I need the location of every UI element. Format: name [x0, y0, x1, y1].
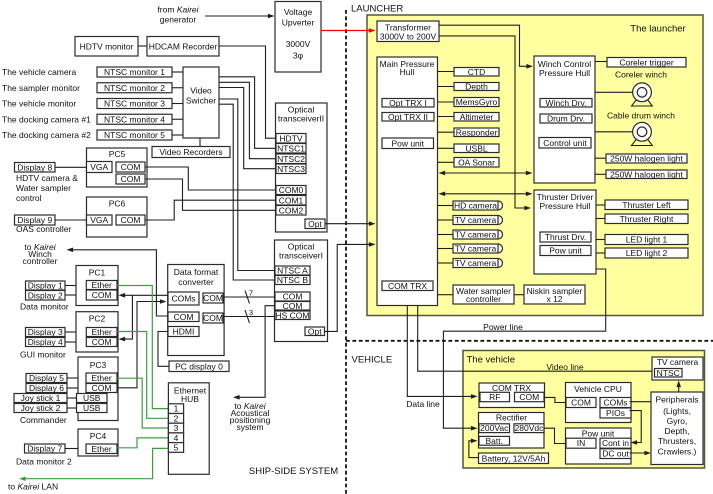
wire Water sampler controller to Niskin sampler [514, 294, 524, 296]
svg-text:COM TRX: COM TRX [388, 281, 427, 291]
svg-text:HD camera: HD camera [454, 201, 497, 211]
svg-text:(Lights,: (Lights, [663, 406, 691, 416]
port COM (PC3) [86, 383, 117, 393]
box Depth [454, 82, 499, 92]
svg-text:Water sampler: Water sampler [16, 183, 71, 193]
port NTSC1 [276, 143, 306, 153]
wire Display 3 to PC2 [65, 331, 76, 333]
svg-text:Video: Video [190, 86, 212, 96]
box TV camera 4 [453, 244, 503, 254]
wire Video Swicher to Video Recorders [199, 138, 201, 147]
wire Main hull - Thruster Driver hull (bidirectional) [442, 193, 531, 195]
svg-text:NTSC monitor 4: NTSC monitor 4 [104, 114, 165, 124]
wire Main hull to TV camera 2 [438, 219, 454, 221]
svg-text:280Vdc: 280Vdc [515, 423, 545, 433]
svg-text:COM: COM [283, 301, 303, 311]
wire PC5 COM lower to COM2 port [145, 179, 276, 210]
port Ether (PC3) [86, 373, 117, 383]
svg-text:NTSC A: NTSC A [277, 266, 308, 276]
box Main Pressure Hull [377, 57, 438, 306]
box Transformer 3000V to 200V [377, 21, 439, 42]
wire NTSC monitor 4 to Video Swicher [172, 118, 183, 120]
svg-text:TV camera: TV camera [455, 258, 497, 268]
port Batt. [479, 436, 510, 446]
wire Display 7 to PC4 [65, 448, 78, 450]
box Display 1 [26, 281, 66, 291]
box Thruster Right [605, 214, 688, 224]
icon Cable drum winch [632, 122, 653, 145]
port 200Vac [479, 423, 510, 433]
svg-text:COM: COM [92, 383, 112, 393]
port PIOs (Vehicle CPU) [600, 408, 631, 418]
svg-text:250W halogen light: 250W halogen light [610, 154, 683, 164]
svg-text:system: system [237, 422, 264, 432]
svg-text:COM2: COM2 [279, 205, 304, 215]
box TV camera 3 [453, 230, 503, 240]
svg-text:Crawlers.): Crawlers.) [658, 447, 697, 457]
wire Opt I fiber to Main Pressure Hull [325, 244, 371, 331]
svg-text:Display 7: Display 7 [27, 444, 62, 454]
wire Main hull to TV camera 5 [438, 262, 454, 264]
wire NTSC monitor 1 to Video Swicher [172, 71, 183, 73]
box Display 2 [26, 290, 66, 300]
port NTSC2 [276, 154, 306, 164]
svg-text:COM: COM [121, 162, 141, 172]
wire video line Main hull to TV camera NTSC [418, 306, 655, 372]
svg-text:Depth,: Depth, [664, 426, 689, 436]
svg-text:COM: COM [92, 337, 112, 347]
wire PC5 COM upper to COM0 port [145, 167, 276, 190]
svg-text:COM: COM [203, 313, 223, 323]
svg-text:Display 5: Display 5 [29, 373, 64, 383]
wire Winch hull to Coreler trigger [595, 61, 607, 63]
wire Battery to Batt. [469, 441, 479, 458]
svg-text:COM: COM [121, 215, 141, 225]
port NTSC B [275, 275, 310, 285]
box NTSC monitor 5 [97, 130, 172, 140]
svg-text:Ether: Ether [91, 373, 111, 383]
wire Main hull to Water sampler controller [438, 294, 454, 296]
wire Main hull to HD camera 1 [438, 205, 454, 207]
wire Transformer to Thruster Driver Pressure Hull [439, 36, 527, 208]
svg-text:COM: COM [92, 290, 112, 300]
svg-text:COM: COM [203, 293, 223, 303]
svg-text:COM: COM [571, 398, 591, 408]
port COM0 [276, 185, 306, 195]
box Responder [454, 127, 499, 137]
wire Opt II fiber to Main Pressure Hull [325, 223, 370, 225]
port COM (transceiverI 2) [275, 301, 310, 311]
dashed boundary horizontal (launcher / vehicle divider) [346, 340, 713, 342]
svg-text:Rectifier: Rectifier [496, 413, 527, 423]
box NTSC monitor 1 [97, 67, 172, 77]
port Opt TRX I [382, 98, 434, 108]
box Battery 12V/5Ah [479, 453, 549, 464]
svg-text:PC display 0: PC display 0 [175, 361, 223, 371]
box PC2 [76, 312, 118, 352]
wire Main hull to CTD [438, 71, 455, 73]
svg-text:Winch Drv.: Winch Drv. [546, 98, 587, 108]
box PC3 [78, 357, 118, 421]
svg-text:PC3: PC3 [90, 360, 107, 370]
wire PC4 Ether to HUB port 4 (green) [117, 438, 168, 448]
svg-text:Cable drum winch: Cable drum winch [607, 110, 675, 120]
wire COMs to PC1 COM and PC2 COM [123, 294, 168, 296]
svg-text:COM1: COM1 [279, 195, 304, 205]
svg-text:Ether: Ether [91, 280, 111, 290]
svg-text:transceiverI: transceiverI [279, 250, 323, 260]
svg-text:Coreler winch: Coreler winch [615, 70, 667, 80]
svg-text:COM: COM [174, 312, 194, 322]
svg-text:Voltage: Voltage [284, 7, 313, 17]
port 3 (HUB) [168, 423, 183, 433]
port COM (PC2) [86, 337, 117, 347]
svg-text:LED light 1: LED light 1 [626, 235, 668, 245]
svg-text:TV camera: TV camera [455, 244, 497, 254]
port 2 (HUB) [168, 413, 183, 423]
wire Video Swicher out to NTSC3 port [219, 88, 276, 169]
port COM TRX (Main hull) [382, 281, 433, 291]
box PC1 [76, 266, 118, 306]
svg-text:2: 2 [174, 413, 179, 423]
box COM (PC5 upper) [116, 162, 145, 172]
box Display 6 [26, 383, 67, 393]
svg-text:TV camera: TV camera [455, 230, 497, 240]
port Winch Drv. [540, 98, 592, 108]
box Thruster Left [605, 200, 688, 210]
svg-text:IN: IN [577, 438, 586, 448]
port Opt (transceiverII) [305, 219, 325, 229]
svg-text:Coreler trigger: Coreler trigger [619, 57, 673, 67]
svg-text:HS COM: HS COM [276, 310, 310, 320]
wire PC6 COM to COM1 port [145, 200, 276, 220]
svg-text:Battery, 12V/5Ah: Battery, 12V/5Ah [482, 453, 546, 463]
port Drum Drv. [540, 114, 592, 124]
svg-text:Pow unit: Pow unit [549, 246, 582, 256]
port COM (PC1) [86, 290, 117, 300]
wire Main hull to Altimeter [438, 116, 455, 118]
wire Joy stick 2 to USB [67, 407, 77, 409]
svg-text:Display 6: Display 6 [29, 383, 64, 393]
svg-text:The vehicle monitor: The vehicle monitor [2, 99, 76, 109]
wire Video Swicher out to NTSC A port [219, 99, 275, 271]
port IN [566, 438, 596, 448]
svg-text:Swicher: Swicher [186, 96, 216, 106]
port HDMI [168, 327, 199, 337]
wire Transformer to Winch Control Pressure Hull [439, 25, 529, 66]
dashed boundary vertical (ship / launcher-vehicle divider) [345, 10, 347, 494]
box NTSC monitor 4 [97, 114, 172, 124]
box COM TRX (vehicle) [479, 383, 545, 408]
svg-text:Pow unit: Pow unit [582, 429, 615, 439]
box HDCAM Recorder [147, 37, 219, 57]
box Display 9 [15, 215, 56, 225]
box NTSC monitor 3 [97, 99, 172, 109]
wire Winch hull to 250W halogen light 1 [595, 157, 606, 159]
svg-text:VEHICLE: VEHICLE [352, 354, 393, 365]
wire Main hull to MemsGyro [438, 101, 455, 103]
svg-text:NTSC monitor 3: NTSC monitor 3 [104, 99, 165, 109]
svg-text:CTD: CTD [468, 67, 485, 77]
box Display 5 [26, 373, 67, 383]
svg-text:NTSC monitor 1: NTSC monitor 1 [104, 67, 165, 77]
svg-text:from Kairei: from Kairei [157, 5, 199, 15]
svg-text:TV camera: TV camera [455, 215, 497, 225]
svg-text:LAUNCHER: LAUNCHER [351, 4, 403, 15]
wire Main hull to TV camera 3 [438, 234, 454, 236]
svg-text:PC4: PC4 [90, 431, 107, 441]
port COM (vehicle COM TRX) [515, 392, 545, 402]
svg-text:Joy stick 1: Joy stick 1 [21, 393, 61, 403]
box 250W halogen light 2 [606, 169, 687, 179]
box Display 8 [15, 162, 56, 172]
svg-text:PC6: PC6 [109, 199, 126, 209]
wire NTSC monitor 3 to Video Swicher [172, 103, 183, 105]
box Thruster Driver Pressure Hull [534, 190, 596, 274]
port COM1 [276, 195, 306, 205]
svg-text:COMs: COMs [171, 294, 195, 304]
wire COM TRX COM to Vehicle CPU COM [545, 397, 567, 402]
svg-text:200Vac: 200Vac [480, 423, 509, 433]
box Optical transceiverII [276, 103, 328, 232]
svg-text:Display 3: Display 3 [28, 327, 63, 337]
port NTSC3 [276, 164, 306, 174]
box PC6 [87, 197, 148, 237]
svg-text:controller: controller [23, 256, 58, 266]
svg-text:Opt: Opt [308, 219, 322, 229]
box LED light 2 [605, 248, 688, 258]
svg-text:RF: RF [489, 392, 500, 402]
port 5 (HUB) [168, 442, 183, 452]
wire Main hull to Responder [438, 131, 455, 133]
box Peripherals [651, 392, 703, 465]
wire Video Swicher out to NTSC B port [219, 104, 275, 280]
svg-text:Display 1: Display 1 [28, 281, 63, 291]
wire 280Vdc to Pow unit IN [544, 428, 566, 443]
wire Thruster hull to Thruster Right [596, 218, 605, 220]
wire Main hull to USBL [438, 147, 455, 149]
box Display 4 [26, 337, 66, 347]
box The vehicle (yellow) [463, 351, 705, 469]
svg-text:transceiverII: transceiverII [278, 113, 324, 123]
wire COM to Kairei acoustical positioning system [237, 306, 275, 398]
svg-text:control: control [16, 193, 42, 203]
box Niskin sampler x 12 [524, 285, 585, 304]
box COM (PC6) [116, 215, 145, 225]
svg-text:Batt.: Batt. [486, 436, 503, 446]
port NTSC A [275, 266, 310, 276]
svg-text:PC2: PC2 [89, 314, 106, 324]
box USBL [454, 143, 499, 153]
svg-text:PC1: PC1 [89, 268, 106, 278]
svg-text:7: 7 [249, 289, 253, 298]
box Water sampler controller [453, 285, 514, 304]
box Display 3 [26, 327, 66, 337]
svg-text:OAS controller: OAS controller [16, 224, 71, 234]
svg-text:3: 3 [249, 308, 253, 317]
port COM (converter right upper) [203, 293, 223, 303]
box MemsGyro [454, 97, 499, 107]
svg-text:Power line: Power line [483, 322, 523, 332]
wire Vehicle CPU COMs to Peripherals [630, 401, 652, 403]
port Ether (PC4) [86, 444, 117, 454]
port COM (Vehicle CPU) [566, 398, 596, 408]
svg-text:Cont in: Cont in [602, 438, 629, 448]
svg-text:Video line: Video line [546, 362, 583, 372]
wire Display 8 to PC5 VGA [55, 166, 87, 168]
svg-text:VGA: VGA [90, 162, 108, 172]
port COM (converter left) [168, 312, 199, 322]
wire PIOs to Cont in [630, 411, 642, 443]
port Opt (transceiverI) [305, 326, 325, 336]
port COM2 [276, 205, 306, 215]
svg-text:Joy stick 2: Joy stick 2 [21, 403, 61, 413]
svg-text:Data monitor: Data monitor [20, 302, 69, 312]
svg-text:3φ: 3φ [293, 51, 304, 61]
svg-text:Peripherals: Peripherals [656, 395, 699, 405]
svg-text:Hull: Hull [400, 67, 415, 77]
svg-text:Opt TRX I: Opt TRX I [389, 98, 427, 108]
box CTD [454, 67, 499, 77]
box OA Sonar [454, 157, 499, 167]
svg-text:GUI monitor: GUI monitor [20, 350, 66, 360]
wire Thruster hull to Thruster Left [596, 204, 605, 206]
svg-text:controller: controller [466, 294, 501, 304]
svg-text:Opt TRX II: Opt TRX II [388, 112, 428, 122]
wire Display 6 to PC3 [67, 387, 78, 389]
svg-text:converter: converter [178, 277, 214, 287]
wire HDTV monitor - HDCAM Recorder [138, 45, 147, 47]
svg-text:Display 8: Display 8 [17, 162, 52, 172]
box 250W halogen light 1 [606, 154, 687, 164]
svg-text:Data format: Data format [174, 267, 219, 277]
port 1 (HUB) [168, 404, 183, 414]
wire Video Swicher out to NTSC2 port [219, 82, 276, 158]
wire PC3 COM to COMs [117, 302, 162, 388]
wire PC3 Ether to HUB port 3 (green) [117, 378, 168, 428]
svg-text:NTSC: NTSC [657, 368, 680, 378]
wire Display 2 to PC1 [65, 294, 76, 296]
box Joy stick 1 [14, 393, 67, 403]
svg-text:NTSC1: NTSC1 [277, 143, 305, 153]
svg-text:Thrust Drv.: Thrust Drv. [545, 232, 586, 242]
port Cont in [600, 438, 631, 448]
box HD camera 1 [453, 201, 503, 211]
wire Main hull to TV camera 4 [438, 248, 454, 250]
port COM (converter right lower) [203, 313, 223, 323]
svg-text:Ether: Ether [91, 444, 111, 454]
box Joy stick 2 [14, 403, 67, 413]
box NTSC monitor 2 [97, 83, 172, 93]
box The launcher (yellow) [367, 15, 703, 316]
svg-text:The sampler monitor: The sampler monitor [2, 83, 80, 93]
wire DC out to Peripherals [630, 452, 647, 454]
svg-text:5: 5 [174, 442, 179, 452]
svg-text:COM0: COM0 [279, 185, 304, 195]
port COMs [168, 292, 199, 305]
box Coreler trigger [607, 57, 686, 67]
wire Display 5 to PC3 [67, 377, 78, 379]
svg-text:MemsGyro: MemsGyro [456, 97, 498, 107]
wire Video Swicher out to NTSC1 port [219, 77, 276, 149]
svg-text:PC5: PC5 [109, 149, 126, 159]
wire Winch hull to Coreler winch [595, 91, 633, 93]
svg-text:HUB: HUB [181, 394, 199, 404]
wire NTSC monitor 2 to Video Swicher [172, 87, 183, 89]
box Video Swicher [183, 67, 219, 138]
svg-text:DC out: DC out [602, 449, 629, 459]
svg-text:Gyro,: Gyro, [667, 416, 688, 426]
svg-text:HDMI: HDMI [173, 327, 195, 337]
svg-text:Responder: Responder [456, 127, 498, 137]
svg-text:The docking camera #2: The docking camera #2 [2, 130, 91, 140]
box Optical transceiverI [275, 240, 328, 342]
wire NTSC monitor 5 to Video Swicher [172, 134, 183, 136]
svg-text:Display 2: Display 2 [28, 290, 63, 300]
box TV camera (vehicle) [652, 357, 703, 380]
icon Coreler winch [632, 83, 653, 106]
svg-text:The launcher: The launcher [630, 23, 685, 34]
svg-text:NTSC monitor 2: NTSC monitor 2 [104, 83, 165, 93]
svg-text:Data line: Data line [406, 399, 440, 409]
box TV camera 5 [453, 258, 503, 268]
svg-text:3: 3 [174, 423, 179, 433]
wire Main hull to Depth [438, 86, 455, 88]
wire Display 1 to PC1 [65, 285, 76, 287]
svg-text:TV camera: TV camera [657, 357, 699, 367]
port HDTV [276, 133, 306, 143]
svg-text:NTSC monitor 5: NTSC monitor 5 [104, 130, 165, 140]
port USB (PC3 lower) [77, 403, 108, 413]
port Thrust Drv. [540, 232, 591, 242]
wire HUB port 5 to Kairei LAN (green) [24, 448, 169, 478]
wire Display 9 to PC6 VGA [55, 219, 87, 221]
svg-text:NTSC2: NTSC2 [277, 154, 305, 164]
svg-text:Thruster Right: Thruster Right [620, 214, 674, 224]
svg-text:HDTV: HDTV [279, 133, 302, 143]
box Pow unit (vehicle) [566, 428, 632, 464]
port NTSC (vehicle camera) [655, 368, 683, 378]
box Voltage Upverter [275, 2, 321, 73]
port COM (transceiverI 1) [275, 292, 310, 302]
wire Winch hull to 250W halogen light 2 [595, 173, 606, 175]
svg-text:The vehicle: The vehicle [467, 354, 516, 365]
wire data line Main hull to vehicle COM TRX [407, 306, 473, 397]
box VGA (PC6) [87, 215, 113, 225]
box Ethernet HUB [168, 383, 209, 475]
port Opt TRX II [382, 112, 434, 122]
port COMs (Vehicle CPU) [600, 398, 631, 408]
svg-text:1: 1 [174, 404, 179, 414]
box LED light 1 [605, 235, 688, 245]
svg-text:PIOs: PIOs [606, 408, 625, 418]
svg-text:Altimeter: Altimeter [460, 112, 494, 122]
port USB (PC3 upper) [77, 393, 108, 403]
svg-text:HDTV camera &: HDTV camera & [16, 173, 78, 183]
box Display 7 [25, 444, 66, 454]
wire COM to transceiverI HS COM (3-wide bus) [223, 316, 275, 318]
port 280Vdc [514, 423, 544, 433]
svg-text:USB: USB [83, 393, 101, 403]
box Altimeter [454, 112, 499, 122]
wire Peripherals to TV camera [678, 385, 680, 392]
svg-text:Vehicle CPU: Vehicle CPU [574, 384, 622, 394]
svg-text:Control unit: Control unit [543, 138, 587, 148]
svg-text:Pressure Hull: Pressure Hull [539, 68, 590, 78]
svg-text:LED light 2: LED light 2 [626, 248, 668, 258]
svg-text:HDTV monitor: HDTV monitor [80, 41, 134, 51]
port Ether (PC1) [86, 280, 117, 290]
